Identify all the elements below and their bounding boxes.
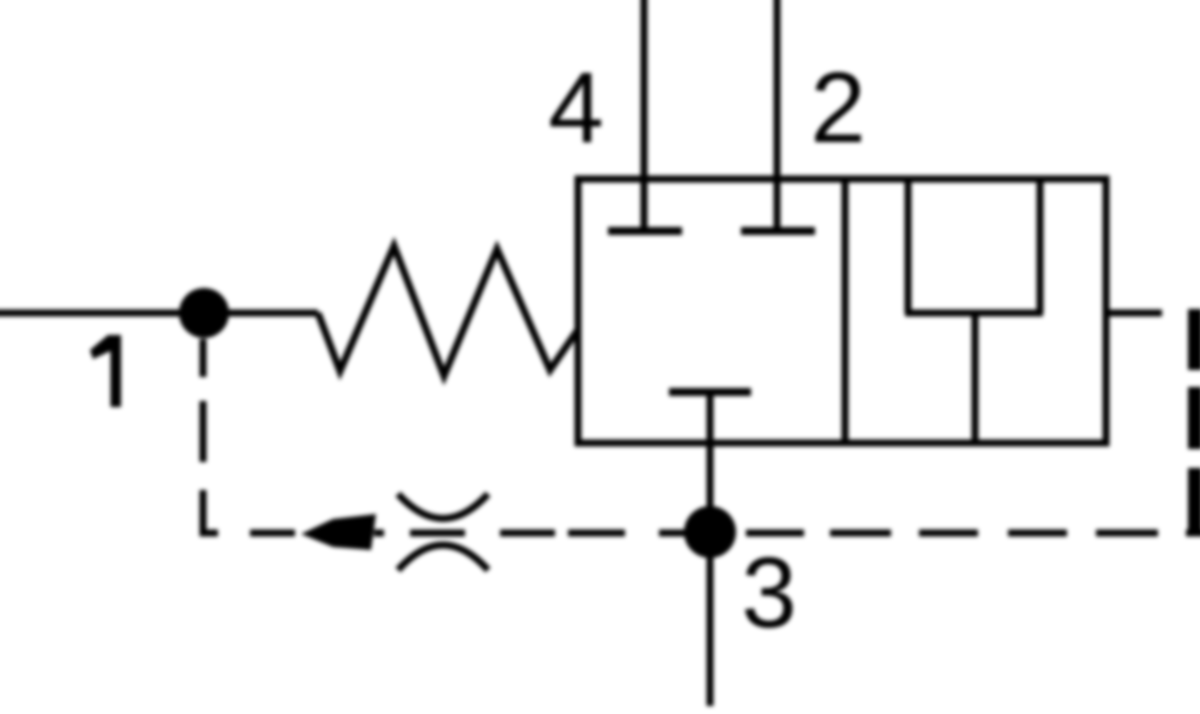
node 1 junction dot bbox=[179, 288, 229, 338]
spring bbox=[318, 246, 577, 376]
dashed line right edge vertical bbox=[1188, 309, 1200, 370]
right section internal: crossbar bbox=[905, 310, 1043, 317]
divider between valve sections bbox=[842, 179, 849, 443]
pilot port 2 T-bar bbox=[741, 227, 815, 235]
pilot line port 2 bbox=[774, 0, 781, 231]
svg-text:4: 4 bbox=[548, 52, 604, 164]
label port 1 bbox=[90, 335, 121, 407]
wire: port 3 vertical line bbox=[707, 392, 714, 706]
valve body box bbox=[578, 179, 1106, 443]
bottom port T-bar bbox=[669, 388, 751, 396]
orifice restrictor top arc bbox=[398, 494, 488, 519]
node 3 junction dot bbox=[684, 506, 736, 558]
right section internal: left vertical bbox=[905, 179, 912, 313]
svg-text:3: 3 bbox=[741, 537, 797, 649]
pilot port 4 T-bar bbox=[608, 227, 682, 235]
svg-text:2: 2 bbox=[810, 52, 866, 164]
flow arrow on pilot line bbox=[301, 514, 376, 550]
wire: main line from port 1 to spring bbox=[0, 310, 318, 317]
dashed pilot horizontal line bbox=[250, 530, 295, 537]
pilot line port 4 bbox=[641, 0, 648, 231]
dashed pilot line down from node 1 bbox=[200, 339, 207, 377]
dashed pilot corner bottom right bbox=[1186, 530, 1200, 537]
right section internal: center stem bbox=[972, 313, 979, 443]
dashed pilot corner at node 1 leg bbox=[203, 490, 218, 533]
wire: output port line bbox=[1106, 310, 1162, 317]
orifice restrictor bottom arc bbox=[398, 545, 488, 570]
right section internal: right vertical bbox=[1037, 179, 1044, 313]
